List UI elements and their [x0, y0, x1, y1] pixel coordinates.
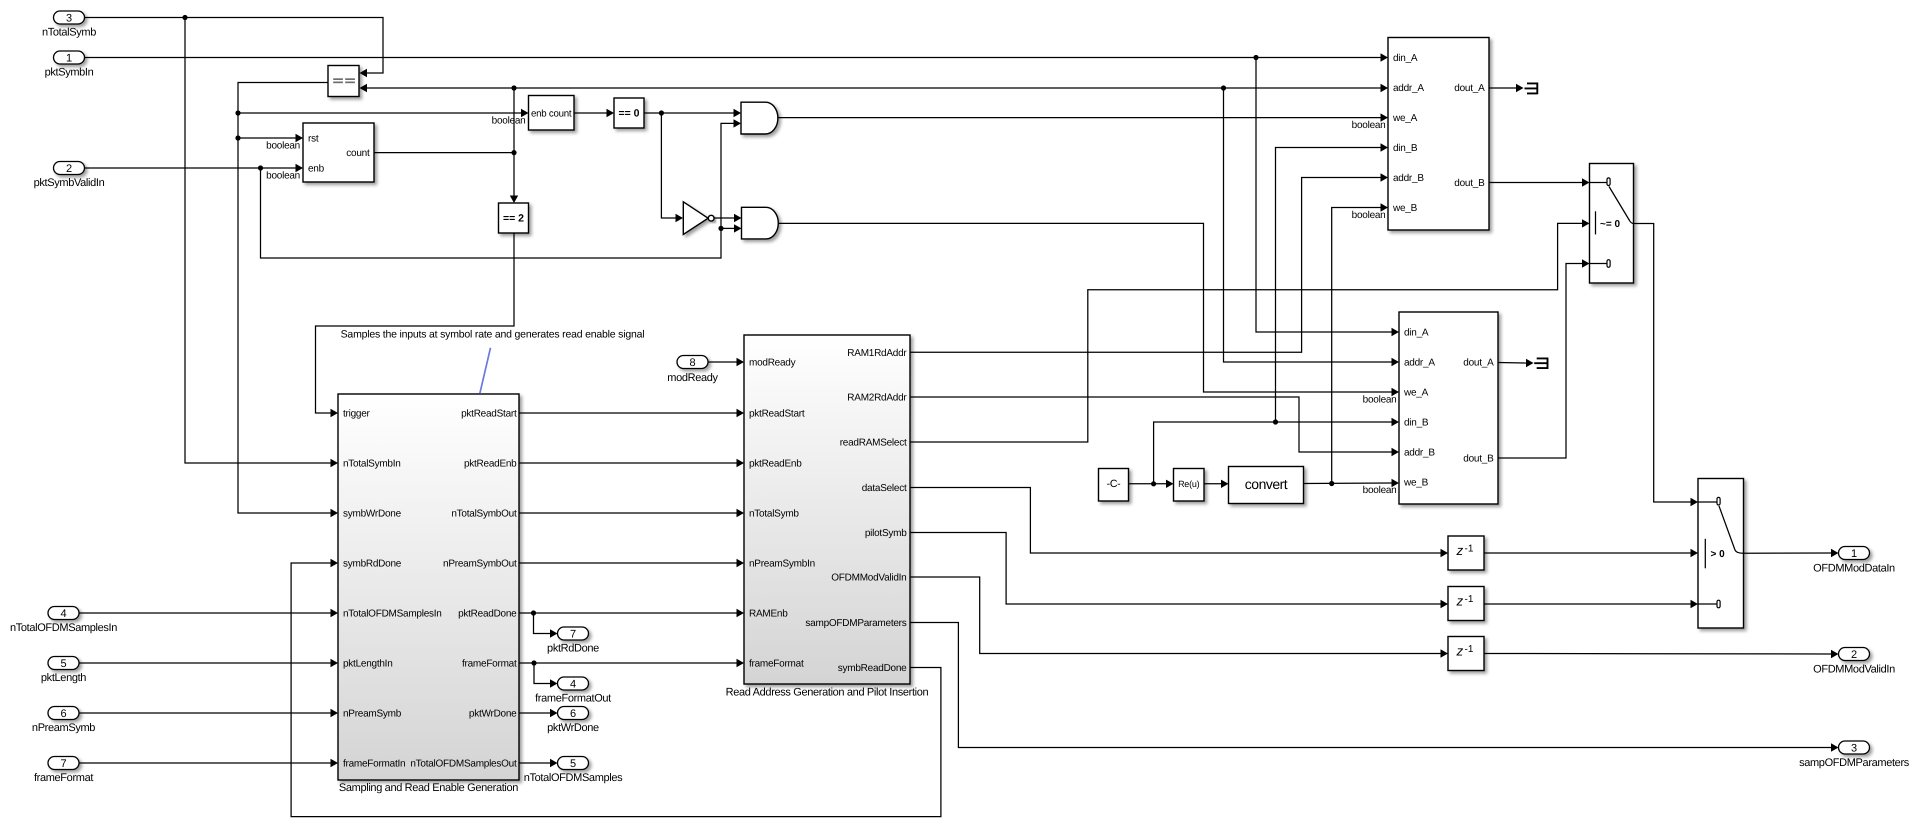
- svg-text:we_B: we_B: [1392, 203, 1418, 214]
- svg-text:symbWrDone: symbWrDone: [343, 509, 402, 520]
- svg-text:pktReadDone: pktReadDone: [458, 609, 517, 620]
- wire pktSymbIn branch to RAM2 din_A: [1256, 58, 1392, 333]
- wire OFDMModValidIn to delay Z3: [910, 577, 1441, 654]
- port inport 7 frameFormat: [48, 757, 79, 770]
- port outport 3 sampOFDMParameters: [1839, 741, 1870, 754]
- wire pktReadEnb wire: [519, 462, 737, 464]
- wire Z1 to switch GT0 control: [1484, 552, 1691, 554]
- svg-text:boolean: boolean: [1352, 120, 1386, 131]
- wire pktLength wire: [79, 662, 331, 664]
- compare EQ0: [614, 98, 644, 128]
- relational operator EQ: [328, 66, 359, 97]
- svg-text:-1: -1: [1465, 594, 1474, 605]
- wire NOT output to AND2 input1: [714, 217, 734, 219]
- constant -C-: [1099, 469, 1129, 502]
- wire modReady to subsystem: [708, 361, 737, 363]
- wire RAM1 dout_B to switch input1: [1489, 182, 1582, 184]
- wire pilotSymb to delay Z2: [910, 533, 1441, 605]
- wire AND1 output to RAM1 we_A: [778, 117, 1381, 119]
- port inport 6 nPreamSymb: [48, 707, 79, 720]
- svg-text:trigger: trigger: [343, 409, 371, 420]
- wire nTotalOFDMSamplesOut to outport 5: [519, 762, 550, 764]
- svg-text:z: z: [1456, 644, 1464, 659]
- svg-text:we_A: we_A: [1403, 388, 1429, 399]
- wire Re(u) to convert: [1204, 483, 1221, 485]
- svg-text:2: 2: [1851, 649, 1857, 661]
- wire nTotalOFDMSamplesIn wire: [79, 612, 331, 614]
- wire RAM1 dout_A to terminator: [1489, 87, 1516, 89]
- svg-text:2: 2: [66, 163, 72, 175]
- svg-text:pilotSymb: pilotSymb: [865, 528, 907, 539]
- wire dataSelect to delay Z1: [910, 488, 1441, 554]
- svg-text:rst: rst: [308, 134, 319, 145]
- NOT gate: [683, 202, 708, 235]
- port inport 1 pktSymbIn: [54, 51, 85, 64]
- wire RAM1RdAddr to RAM1 addr_B: [910, 178, 1381, 353]
- port inport 3 nTotalSymb: [54, 11, 85, 24]
- wire EQ2 output to trigger: [316, 233, 515, 413]
- wire tap to AND2 input2: [721, 227, 734, 229]
- wire frameFormat inport wire: [79, 762, 331, 764]
- svg-text:6: 6: [60, 708, 66, 720]
- counter block: [303, 123, 374, 182]
- svg-text:boolean: boolean: [266, 171, 300, 182]
- svg-text:pktSymbValidIn: pktSymbValidIn: [34, 177, 105, 189]
- svg-text:pktReadStart: pktReadStart: [461, 409, 517, 420]
- wire Z2 to switch GT0 input3: [1484, 603, 1691, 605]
- svg-text:z: z: [1456, 543, 1464, 558]
- wire frameFormat branch to outport 4: [534, 663, 550, 684]
- svg-text:boolean: boolean: [1363, 395, 1397, 406]
- svg-text:nTotalOFDMSamplesOut: nTotalOFDMSamplesOut: [410, 759, 517, 770]
- svg-text:addr_B: addr_B: [1393, 173, 1424, 184]
- wire pktReadDone to RAMEnb: [519, 612, 737, 614]
- svg-text:dataSelect: dataSelect: [862, 483, 907, 494]
- svg-text:Re(u): Re(u): [1178, 479, 1200, 489]
- svg-text:nTotalSymbIn: nTotalSymbIn: [343, 459, 401, 470]
- wire EQ output branch to counter rst: [238, 137, 296, 139]
- port inport 2 pktSymbValidIn: [54, 162, 85, 175]
- wire pktWrDone to outport 6: [519, 712, 550, 714]
- svg-text:4: 4: [60, 608, 66, 620]
- svg-text:dout_A: dout_A: [1463, 358, 1494, 369]
- svg-text:~= 0: ~= 0: [1600, 219, 1620, 230]
- delay Z1: [1448, 536, 1484, 570]
- svg-text:din_B: din_B: [1393, 143, 1418, 154]
- wire readRAMSelect to switch control: [910, 223, 1582, 442]
- svg-text:frameFormat: frameFormat: [749, 659, 804, 670]
- wire sampOFDMParameters to outport 3: [910, 623, 1831, 748]
- subsystem Sampling and Read Enable Generation: [338, 394, 519, 780]
- svg-text:nTotalSymb: nTotalSymb: [749, 509, 799, 520]
- wire pktReadDone branch to outport 7: [534, 613, 551, 634]
- wire RAM2RdAddr to RAM2 addr_B: [910, 397, 1392, 452]
- wire count vertical up: [513, 88, 515, 153]
- wire constant branch to din_B RAMs: [1154, 422, 1392, 484]
- svg-text:-1: -1: [1465, 644, 1474, 655]
- svg-text:nPreamSymb: nPreamSymb: [343, 709, 402, 720]
- wire count net to EQ input2 and RAM1 addr_A: [367, 87, 1381, 89]
- svg-text:RAMEnb: RAMEnb: [749, 609, 788, 620]
- svg-text:1: 1: [1851, 548, 1857, 560]
- svg-text:boolean: boolean: [266, 141, 300, 152]
- svg-text:5: 5: [60, 658, 66, 670]
- svg-text:Samples the inputs at symbol r: Samples the inputs at symbol rate and ge…: [341, 329, 645, 341]
- svg-text:dout_A: dout_A: [1454, 83, 1485, 94]
- svg-text:symbRdDone: symbRdDone: [343, 559, 402, 570]
- svg-text:pktReadEnb: pktReadEnb: [464, 459, 517, 470]
- svg-text:-C-: -C-: [1107, 478, 1122, 490]
- wire count vertical down to EQ2: [513, 153, 515, 196]
- svg-text:pktReadStart: pktReadStart: [749, 409, 805, 420]
- enb count block: [529, 96, 575, 131]
- svg-text:pktWrDone: pktWrDone: [547, 722, 599, 734]
- svg-text:3: 3: [1851, 742, 1857, 754]
- wire pktReadStart wire: [519, 412, 737, 414]
- svg-text:frameFormat: frameFormat: [34, 772, 93, 784]
- svg-text:7: 7: [60, 758, 66, 770]
- svg-text:frameFormatOut: frameFormatOut: [535, 693, 611, 705]
- wire constant to Re(u): [1129, 483, 1167, 485]
- svg-text:we_A: we_A: [1392, 113, 1418, 124]
- svg-text:8: 8: [689, 357, 695, 369]
- svg-text:boolean: boolean: [492, 116, 526, 127]
- svg-text:OFDMModDataIn: OFDMModDataIn: [1813, 563, 1895, 575]
- svg-text:pktLengthIn: pktLengthIn: [343, 659, 393, 670]
- svg-text:addr_A: addr_A: [1404, 358, 1435, 369]
- port outport 6 pktWrDone: [558, 707, 589, 720]
- wire enb count to EQ0: [574, 112, 607, 114]
- subsystem Read Address Generation and Pilot Insertion: [744, 335, 910, 684]
- port outport 7 pktRdDone: [558, 627, 589, 640]
- svg-text:6: 6: [570, 708, 576, 720]
- wire nTotalSymb branch to nTotalSymbIn: [185, 18, 331, 464]
- svg-text:pktWrDone: pktWrDone: [469, 709, 517, 720]
- wire count branch to RAM2 addr_A: [1224, 88, 1392, 362]
- annotation connector line: [480, 348, 491, 394]
- svg-text:pktSymbIn: pktSymbIn: [45, 67, 94, 79]
- wire nTotalSymbOut wire: [519, 512, 737, 514]
- wire convert branch to RAM1 we_B: [1332, 208, 1381, 484]
- delay Z3: [1448, 637, 1484, 671]
- svg-text:enb: enb: [308, 164, 325, 175]
- wire EQ0 output to AND1 input1: [644, 112, 734, 114]
- port inport 8 modReady: [677, 356, 708, 369]
- svg-text:> 0: > 0: [1711, 549, 1726, 560]
- switch GT0: [1698, 479, 1744, 629]
- port outport 4 frameFormatOut: [558, 677, 589, 690]
- RAM block 1: [1388, 38, 1489, 231]
- svg-text:modReady: modReady: [667, 372, 718, 384]
- svg-text:pktReadEnb: pktReadEnb: [749, 459, 802, 470]
- svg-text:nTotalOFDMSamplesIn: nTotalOFDMSamplesIn: [10, 622, 117, 634]
- wire switch NE0 output to switch GT0 input1: [1634, 224, 1691, 503]
- svg-text:pktRdDone: pktRdDone: [547, 643, 599, 655]
- svg-text:nTotalOFDMSamplesIn: nTotalOFDMSamplesIn: [343, 609, 442, 620]
- wire RAM2 dout_B to switch input3: [1498, 264, 1582, 459]
- AND gate 2: [742, 207, 779, 239]
- svg-text:nTotalSymb: nTotalSymb: [42, 27, 96, 39]
- svg-text:count: count: [346, 148, 370, 159]
- svg-text:nPreamSymbOut: nPreamSymbOut: [443, 559, 517, 570]
- svg-text:addr_A: addr_A: [1393, 83, 1424, 94]
- wire EQ0 branch to NOT input: [661, 113, 675, 218]
- svg-text:3: 3: [66, 12, 72, 24]
- svg-text:7: 7: [570, 628, 576, 640]
- svg-text:RAM2RdAddr: RAM2RdAddr: [847, 393, 907, 404]
- delay Z2: [1448, 587, 1484, 621]
- wire AND2 output to RAM2 we_A: [778, 223, 1392, 392]
- port outport 2 OFDMModValidIn: [1839, 648, 1870, 661]
- svg-text:enb count: enb count: [531, 108, 572, 119]
- wire nPreamSymbOut wire: [519, 562, 737, 564]
- svg-text:readRAMSelect: readRAMSelect: [840, 438, 907, 449]
- terminator 1: [1525, 83, 1538, 95]
- wire nPreamSymb wire: [79, 712, 331, 714]
- switch NE0: [1590, 164, 1634, 284]
- wire nTotalSymb to EQ input1: [85, 18, 383, 74]
- wire frameFormat wire: [519, 662, 737, 664]
- svg-text:z: z: [1456, 594, 1464, 609]
- wire pktSymbValidIn to counter enb: [85, 167, 296, 169]
- compare EQ2: [499, 203, 529, 233]
- wire EQ output branch to enb count: [238, 112, 521, 114]
- svg-text:din_B: din_B: [1404, 418, 1429, 429]
- svg-text:convert: convert: [1245, 476, 1288, 492]
- wire switch GT0 output to outport 1: [1744, 552, 1832, 554]
- wire convert to RAM2 we_B: [1304, 482, 1392, 485]
- svg-text:modReady: modReady: [749, 358, 796, 369]
- svg-text:dout_B: dout_B: [1463, 454, 1494, 465]
- port inport 4 nTotalOFDMSamplesIn: [48, 607, 79, 620]
- svg-text:OFDMModValidIn: OFDMModValidIn: [1813, 664, 1895, 676]
- port outport 1 OFDMModDataIn: [1839, 547, 1870, 560]
- complex to real Re(u): [1174, 469, 1205, 502]
- svg-text:Read Address Generation and Pi: Read Address Generation and Pilot Insert…: [726, 687, 929, 699]
- svg-text:we_B: we_B: [1403, 478, 1429, 489]
- wire symbReadDone to symbRdDone: [291, 563, 941, 817]
- svg-text:boolean: boolean: [1363, 485, 1397, 496]
- svg-text:boolean: boolean: [1352, 210, 1386, 221]
- svg-text:din_A: din_A: [1393, 53, 1418, 64]
- wire Z3 to outport 2: [1484, 653, 1831, 656]
- svg-text:symbReadDone: symbReadDone: [838, 663, 907, 674]
- svg-text:== 2: == 2: [503, 213, 524, 225]
- svg-text:frameFormat: frameFormat: [462, 659, 517, 670]
- svg-text:== 0: == 0: [618, 108, 639, 120]
- svg-text:addr_B: addr_B: [1404, 448, 1435, 459]
- svg-text:nPreamSymb: nPreamSymb: [32, 722, 95, 734]
- svg-text:5: 5: [570, 758, 576, 770]
- svg-text:sampOFDMParameters: sampOFDMParameters: [1799, 757, 1910, 769]
- data type convert: [1229, 467, 1304, 504]
- svg-text:pktLength: pktLength: [41, 672, 86, 684]
- wire RAM2 dout_A to terminator: [1498, 362, 1526, 365]
- svg-text:sampOFDMParameters: sampOFDMParameters: [805, 618, 906, 629]
- svg-text:nTotalSymbOut: nTotalSymbOut: [451, 509, 517, 520]
- svg-text:dout_B: dout_B: [1454, 178, 1485, 189]
- svg-text:4: 4: [570, 678, 576, 690]
- wire count output to junction: [374, 152, 514, 154]
- svg-text:-1: -1: [1465, 543, 1474, 554]
- wire EQ output to symbWrDone: [238, 83, 331, 514]
- svg-text:OFDMModValidIn: OFDMModValidIn: [831, 573, 906, 584]
- RAM block 2: [1399, 312, 1498, 504]
- AND gate 1: [741, 102, 778, 134]
- svg-text:RAM1RdAddr: RAM1RdAddr: [847, 348, 907, 359]
- svg-text:nPreamSymbIn: nPreamSymbIn: [749, 559, 815, 570]
- svg-text:nTotalOFDMSamples: nTotalOFDMSamples: [524, 772, 623, 784]
- wire pktSymbValidIn branch to AND inputs: [261, 123, 734, 258]
- svg-text:Sampling and Read Enable Gener: Sampling and Read Enable Generation: [339, 782, 518, 794]
- svg-text:frameFormatIn: frameFormatIn: [343, 759, 405, 770]
- port outport 5 nTotalOFDMSamples: [558, 757, 589, 770]
- svg-text:din_A: din_A: [1404, 328, 1429, 339]
- port inport 5 pktLength: [48, 657, 79, 670]
- wire pktSymbIn to RAM1 din_A: [85, 57, 1381, 59]
- terminator 2: [1534, 358, 1547, 370]
- svg-text:1: 1: [66, 52, 72, 64]
- wire branch up to RAM1 din_B: [1276, 148, 1381, 423]
